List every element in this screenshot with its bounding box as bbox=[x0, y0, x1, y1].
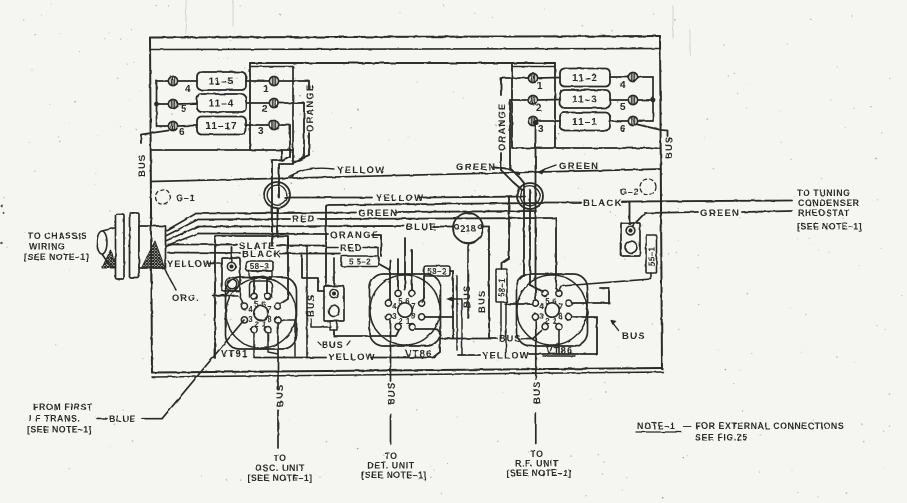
svg-text:3: 3 bbox=[258, 126, 264, 137]
FROM FIRST IF TRANS note bbox=[27, 402, 93, 435]
wire TS2-1 to box bbox=[538, 77, 560, 80]
svg-text:4: 4 bbox=[248, 305, 253, 314]
yellow bus wire (V1 to V2) bbox=[254, 357, 326, 359]
VT91 unit enclosure bbox=[215, 236, 288, 358]
svg-text:3: 3 bbox=[539, 312, 544, 321]
wire TS1-2 drop bbox=[279, 103, 304, 163]
bus wire right of V1 bbox=[306, 246, 308, 357]
svg-text:7: 7 bbox=[411, 302, 415, 311]
svg-text:[SEE NOTE–1]: [SEE NOTE–1] bbox=[24, 252, 89, 262]
junction dot at TS2-3 bbox=[534, 120, 538, 124]
wire pin1 V3 down bbox=[558, 331, 560, 355]
terminal TS1-3 bbox=[269, 120, 278, 129]
55-2 label box bbox=[341, 256, 379, 267]
red wire (horizontal run) bbox=[198, 218, 290, 221]
bus wire under V2-V3 bbox=[440, 338, 497, 340]
svg-text:2: 2 bbox=[398, 317, 403, 326]
svg-text:3: 3 bbox=[392, 312, 397, 321]
wire box to TS2-4 bbox=[610, 76, 628, 78]
tube socket V3 bbox=[517, 274, 588, 346]
bus wire at TS2-6 with hook bbox=[638, 125, 668, 137]
trimmer T1 (body) bbox=[222, 258, 240, 291]
55-2 post screw terminal bbox=[330, 289, 338, 297]
svg-text:BUS: BUS bbox=[462, 285, 473, 308]
yellow wire continues to 58-1 bbox=[419, 197, 525, 270]
grommet G-1 dashed ring bbox=[156, 190, 171, 205]
BUS label (left of 55-2 post) bbox=[306, 294, 331, 327]
wire between units down bbox=[457, 276, 462, 355]
grommet G-2 (double ring) bbox=[517, 183, 543, 209]
terminal TS1-3 number bbox=[258, 126, 264, 137]
rheostat terminal (screw) bbox=[626, 226, 635, 235]
YELLOW label (lower middle) bbox=[482, 351, 530, 362]
svg-text:YELLOW: YELLOW bbox=[482, 351, 530, 362]
svg-text:58–1: 58–1 bbox=[498, 277, 507, 297]
wire TS2-2 drop bbox=[510, 100, 528, 183]
svg-text:5: 5 bbox=[620, 102, 626, 113]
grommet G-1 (double ring) bbox=[264, 182, 290, 208]
svg-text:6: 6 bbox=[261, 300, 266, 309]
svg-text:5 5–2: 5 5–2 bbox=[349, 258, 371, 267]
BUS label (under 55-2 post) bbox=[318, 340, 350, 350]
wire 55-1 down to socket V3 bbox=[559, 273, 651, 291]
terminal strip TS2 bus bracket (right column) bbox=[638, 77, 655, 121]
svg-text:[SEE NOTE–1]: [SEE NOTE–1] bbox=[27, 425, 92, 435]
BUS label (rf stub) bbox=[532, 381, 543, 404]
svg-text:5: 5 bbox=[545, 297, 550, 306]
wire pin7 V3 right bbox=[572, 288, 609, 303]
svg-text:58–2: 58–2 bbox=[427, 267, 447, 276]
terminal TS2-2 bbox=[528, 95, 537, 104]
svg-text:11–4: 11–4 bbox=[209, 99, 235, 110]
wire 55-2 post to bus bbox=[334, 330, 399, 336]
connector flange plate 2 bbox=[130, 213, 140, 278]
orange wire vertical (TS1) bbox=[294, 81, 309, 162]
wire box to TS2-6 bbox=[610, 120, 628, 122]
terminal TS1-5 bbox=[168, 99, 177, 108]
wire pair down through grommet G-1 bbox=[277, 208, 279, 237]
bus wire to osc unit bbox=[277, 324, 279, 448]
BLUE wire label (run) bbox=[406, 222, 437, 233]
svg-text:5: 5 bbox=[398, 297, 403, 306]
GREEN wire label (run) bbox=[358, 208, 398, 219]
svg-text:GREEN: GREEN bbox=[559, 161, 599, 172]
VT91 designator bbox=[221, 349, 248, 360]
wire TS2-3 drop through grommet G-2 bbox=[535, 123, 537, 300]
svg-text:YELLOW: YELLOW bbox=[376, 193, 424, 204]
svg-text:[SEE NOTE–1]: [SEE NOTE–1] bbox=[362, 470, 427, 480]
red wire continues bbox=[318, 218, 558, 291]
TO OSC. UNIT note bbox=[248, 453, 313, 483]
NOTE-1 text bbox=[636, 421, 844, 443]
terminal TS2-6 number bbox=[620, 124, 626, 135]
svg-text:YELLOW: YELLOW bbox=[337, 165, 385, 176]
wire 55-2 box to post bbox=[333, 258, 335, 286]
label box 11-5 bbox=[197, 72, 246, 90]
BUS label (right of V3) bbox=[610, 320, 646, 343]
bus wire to r.f. unit bbox=[535, 320, 537, 444]
svg-text:CONDENSER: CONDENSER bbox=[798, 198, 860, 208]
wire TS1-5 to box bbox=[178, 103, 197, 106]
terminal TS2-5 number bbox=[620, 102, 626, 113]
terminal TS1-6 bbox=[168, 121, 177, 130]
resistor 58-1 label box bbox=[496, 269, 507, 302]
GREEN label (to rheostat) bbox=[700, 208, 740, 219]
svg-text:4: 4 bbox=[539, 302, 544, 311]
svg-text:R.F. UNIT: R.F. UNIT bbox=[515, 459, 559, 469]
GREEN label (top right of G-2) with leader bbox=[538, 161, 599, 175]
black lead continues bbox=[280, 254, 340, 292]
VT86 designator (V2) bbox=[405, 349, 432, 360]
terminal TS1-2 bbox=[269, 98, 278, 107]
blue wire from resistor 218 down bbox=[482, 227, 490, 339]
terminal TS2-1 bbox=[528, 73, 537, 82]
svg-text:1: 1 bbox=[553, 317, 558, 326]
svg-text:GREEN: GREEN bbox=[358, 208, 398, 219]
VT86 designator (V3) bbox=[543, 346, 575, 357]
chassis outline (top double edge) bbox=[150, 36, 660, 50]
svg-text:BUS: BUS bbox=[477, 290, 488, 313]
wire pin1 V1 down to bus bbox=[268, 320, 295, 356]
terminal TS1-4 bbox=[168, 76, 177, 85]
terminal strip TS1 bus bracket (left column) bbox=[155, 81, 169, 126]
wire TS1-3 drop bbox=[279, 125, 290, 161]
55-2 post stem bbox=[330, 321, 337, 330]
connector body hatched wedge bbox=[142, 241, 166, 268]
resistor 58-3 body bbox=[249, 271, 272, 278]
label box 11-1 bbox=[560, 113, 610, 131]
svg-text:5: 5 bbox=[181, 104, 187, 115]
svg-text:8: 8 bbox=[411, 312, 416, 321]
svg-text:6: 6 bbox=[405, 297, 410, 306]
svg-text:YELLOW: YELLOW bbox=[167, 259, 213, 269]
trimmer T1 adjuster bbox=[225, 277, 239, 291]
svg-text:1: 1 bbox=[406, 317, 411, 326]
yellow wire continues to V3 bbox=[529, 353, 597, 355]
terminal TS2-3 number bbox=[538, 124, 544, 135]
tube socket V2 bbox=[370, 274, 441, 346]
yellow bus wire continues bbox=[371, 347, 440, 358]
terminal TS1-1 number bbox=[263, 84, 269, 95]
G-2 label bbox=[620, 187, 639, 197]
bus wire to det unit bbox=[390, 321, 392, 444]
wire box to TS1-1 bbox=[246, 80, 269, 82]
TO TUNING CONDENSER RHEOSTAT note bbox=[797, 188, 862, 232]
svg-text:TO: TO bbox=[384, 451, 397, 461]
svg-text:WIRING: WIRING bbox=[29, 242, 65, 252]
rheostat terminal strip 55-1 (box) bbox=[621, 223, 640, 256]
BUS label (left of V3) bbox=[499, 331, 542, 344]
TO CHASSIS WIRING note bbox=[24, 231, 89, 262]
svg-text:11–3: 11–3 bbox=[572, 95, 598, 106]
black wire (horizontal run) bbox=[326, 203, 543, 205]
SLATE wire label bbox=[239, 241, 276, 252]
svg-text:TO: TO bbox=[530, 449, 543, 459]
rheostat terminal hole bbox=[625, 241, 637, 253]
svg-text:OSC. UNIT: OSC. UNIT bbox=[255, 463, 305, 473]
chassis fold/divider line bbox=[151, 169, 661, 182]
TS2 enclosure box bbox=[512, 63, 660, 148]
RED label (55-2 lead) bbox=[326, 243, 378, 256]
label box 11-2 bbox=[560, 69, 610, 87]
svg-text:4: 4 bbox=[620, 80, 626, 91]
svg-text:ORG.: ORG. bbox=[172, 293, 200, 303]
wire pin8 V3 right down bbox=[572, 317, 597, 354]
terminal TS2-1 number bbox=[537, 81, 543, 92]
trimmer T1 screw terminal bbox=[227, 262, 235, 270]
wire pin4 V3 from left bbox=[505, 303, 532, 305]
label box 11-3 bbox=[560, 90, 610, 108]
GREEN label (top left of G-2) with leader bbox=[456, 162, 519, 174]
svg-text:BUS: BUS bbox=[137, 154, 148, 177]
svg-text:8: 8 bbox=[558, 312, 563, 321]
wire pin8 V2 right bbox=[425, 316, 453, 318]
svg-text:ORANGE: ORANGE bbox=[497, 103, 508, 151]
G-1 label bbox=[176, 193, 195, 203]
ORANGE label (right strip) bbox=[497, 103, 508, 151]
wire TS2-1 to orange drop (left) bbox=[501, 78, 528, 95]
bus wire at TS1-6 with hook bbox=[141, 131, 169, 144]
chassis outline (right edge) bbox=[660, 36, 662, 369]
svg-text:— FOR EXTERNAL CONNECTIONS: — FOR EXTERNAL CONNECTIONS bbox=[683, 421, 844, 431]
svg-text:BUS: BUS bbox=[387, 382, 398, 405]
ORANGE wire label (run) bbox=[330, 230, 380, 241]
svg-text:TO TUNING: TO TUNING bbox=[797, 188, 851, 198]
RED wire label (run) bbox=[292, 214, 316, 225]
svg-text:1: 1 bbox=[262, 320, 267, 329]
TO R.F. UNIT note bbox=[507, 449, 572, 478]
green wire from rheostat bbox=[633, 212, 698, 226]
svg-text:1: 1 bbox=[263, 84, 269, 95]
svg-text:55–1: 55–1 bbox=[648, 246, 657, 266]
wire box to TS1-2 bbox=[246, 102, 269, 104]
slate wire bbox=[168, 244, 237, 246]
TS1 enclosure box bbox=[250, 63, 555, 246]
ORG. label (trimmer lead) bbox=[164, 268, 230, 303]
svg-text:218: 218 bbox=[460, 224, 476, 234]
orange wire vertical (TS2) bbox=[501, 153, 522, 190]
svg-text:BUS: BUS bbox=[322, 340, 343, 350]
BLACK wire label (to rheostat) bbox=[583, 198, 623, 209]
svg-text:BLACK: BLACK bbox=[242, 249, 282, 260]
svg-text:7: 7 bbox=[558, 302, 562, 311]
blue wire to resistor 218 bbox=[434, 226, 453, 228]
BUS label (osc stub) bbox=[275, 384, 286, 407]
svg-text:2: 2 bbox=[545, 317, 550, 326]
resistor 58-3 label box bbox=[246, 261, 273, 271]
wire pin1 V2 right-down bbox=[415, 329, 440, 347]
svg-text:58–3: 58–3 bbox=[250, 262, 270, 271]
55-1 label box bbox=[646, 235, 657, 273]
cable hatched sleeve (left) bbox=[102, 250, 117, 268]
svg-text:GREEN: GREEN bbox=[700, 208, 740, 219]
terminal TS1-4 number bbox=[185, 84, 191, 95]
YELLOW label (trimmer lead) bbox=[167, 259, 222, 269]
svg-text:RED: RED bbox=[292, 214, 316, 225]
svg-text:BUS: BUS bbox=[622, 331, 646, 342]
terminal TS1-2 number bbox=[262, 104, 268, 115]
wire 58-2 right down bbox=[450, 271, 453, 339]
grommet G-2 dashed ring bbox=[640, 179, 656, 195]
socket V1 key shield bbox=[250, 281, 273, 297]
orange wire elbow down to 55-2 bbox=[372, 235, 381, 256]
BUS label (right strip) bbox=[664, 136, 675, 159]
black lead wire bbox=[168, 252, 240, 255]
svg-text:[SEE NOTE–1]: [SEE NOTE–1] bbox=[248, 473, 313, 483]
svg-text:2: 2 bbox=[536, 103, 542, 114]
terminal TS1-5 number bbox=[181, 104, 187, 115]
terminal TS2-2 number bbox=[536, 103, 542, 114]
svg-text:G–2: G–2 bbox=[620, 187, 639, 197]
BLUE wire label (from IF trans) bbox=[97, 414, 162, 424]
svg-text:VT91: VT91 bbox=[221, 349, 248, 360]
resistor 218 (circled) bbox=[453, 213, 483, 243]
svg-text:BUS: BUS bbox=[532, 381, 543, 404]
svg-text:BLACK: BLACK bbox=[583, 198, 623, 209]
wire trimmer to black lead bbox=[231, 247, 233, 262]
svg-text:3: 3 bbox=[538, 124, 544, 135]
long wire joining TS1 and TS2 tops bbox=[250, 62, 555, 64]
svg-text:11–17: 11–17 bbox=[205, 121, 237, 132]
green wire (horizontal run) bbox=[196, 213, 356, 214]
blue wire (horizontal run) bbox=[198, 225, 404, 228]
vertical wires above V2 bbox=[390, 238, 412, 290]
svg-text:8: 8 bbox=[267, 315, 272, 324]
svg-text:11–1: 11–1 bbox=[572, 117, 598, 128]
wire 58-2 to pin7 V2 bbox=[422, 276, 424, 302]
svg-text:BUS: BUS bbox=[275, 384, 286, 407]
black wire drop at left end bbox=[325, 205, 327, 286]
svg-text:11–2: 11–2 bbox=[572, 73, 598, 84]
YELLOW label (lower left) bbox=[328, 352, 376, 363]
svg-text:GREEN: GREEN bbox=[456, 162, 496, 173]
svg-text:SEE FIG.25: SEE FIG.25 bbox=[695, 433, 748, 443]
chassis outline (bottom double edge) bbox=[152, 368, 663, 377]
terminal TS2-4 number bbox=[620, 80, 626, 91]
svg-text:G–1: G–1 bbox=[176, 193, 195, 203]
wire TS1-6 to box bbox=[178, 125, 197, 128]
svg-text:7: 7 bbox=[267, 305, 271, 314]
chassis edge over connector bbox=[150, 213, 152, 281]
yellow wire (horizontal run) bbox=[285, 197, 372, 199]
terminal TS2-4 bbox=[628, 72, 637, 81]
wire 55-2 to pin4 V2 bbox=[379, 264, 390, 300]
svg-text:NOTE–1: NOTE–1 bbox=[637, 421, 675, 431]
orange wire (horizontal run) bbox=[198, 233, 328, 236]
TS1 base line bbox=[152, 149, 293, 151]
svg-text:[SEE NOTE–1]: [SEE NOTE–1] bbox=[507, 468, 572, 478]
wire pin2 V1 down bbox=[253, 333, 255, 357]
YELLOW wire label (run) bbox=[376, 193, 424, 204]
chassis outline (left edge) bbox=[150, 38, 152, 373]
BUS label (det stub) bbox=[387, 382, 398, 405]
wire TS2-2 continuation through grommet bbox=[523, 183, 525, 276]
terminal TS2-5 bbox=[628, 95, 637, 104]
label box 11-17 bbox=[197, 117, 246, 135]
svg-text:6: 6 bbox=[620, 124, 626, 135]
wire pin4 V1 to trimmer bbox=[240, 291, 243, 303]
wire box to TS2-5 bbox=[610, 99, 628, 101]
svg-text:I F TRANS.: I F TRANS. bbox=[29, 414, 80, 424]
55-2 post hole bbox=[329, 306, 340, 317]
wire pin7 V1 up-right bbox=[280, 237, 288, 304]
svg-text:6: 6 bbox=[179, 127, 185, 138]
yellow bus wire (V2 to V3) bbox=[458, 354, 480, 356]
wire box to TS1-3 bbox=[246, 124, 269, 126]
svg-text:2: 2 bbox=[254, 320, 259, 329]
YELLOW label (top, above divider) with leader bbox=[289, 165, 385, 178]
connector body bbox=[139, 226, 166, 268]
wire TS2-3 to box bbox=[538, 120, 560, 122]
svg-text:[SEE NOTE–1]: [SEE NOTE–1] bbox=[797, 222, 862, 232]
terminal strip 55-2 post (body) bbox=[324, 286, 344, 321]
black wire to rheostat terminal bbox=[622, 202, 630, 224]
terminal TS2-6 bbox=[628, 116, 637, 125]
svg-text:DET. UNIT: DET. UNIT bbox=[367, 461, 414, 471]
blue wire diagonal to pin3 V1 bbox=[162, 320, 244, 419]
svg-text:RHEOSTAT: RHEOSTAT bbox=[798, 208, 850, 218]
resistor 58-2 label box bbox=[424, 266, 450, 276]
svg-text:11–5: 11–5 bbox=[209, 77, 235, 88]
svg-text:ORANGE: ORANGE bbox=[305, 84, 316, 132]
connector flange plate 1 bbox=[116, 214, 125, 279]
svg-text:BLUE: BLUE bbox=[109, 414, 136, 424]
BUS label (left strip) bbox=[137, 154, 148, 177]
svg-text:TO: TO bbox=[273, 453, 286, 463]
wire 58-3 to socket pin 6 bbox=[266, 278, 268, 294]
ORANGE label (left strip) bbox=[305, 84, 316, 132]
green wire exits to tuning condenser bbox=[742, 211, 792, 212]
TO DET. UNIT note bbox=[362, 451, 427, 480]
svg-text:3: 3 bbox=[248, 315, 253, 324]
svg-text:1: 1 bbox=[537, 81, 543, 92]
BUS label pair (between V2 and V3) bbox=[446, 285, 488, 313]
svg-text:2: 2 bbox=[262, 104, 268, 115]
wire 58-3 to socket pin 5 bbox=[253, 278, 255, 294]
wire 58-1 down bbox=[501, 302, 506, 352]
svg-text:FROM FIRST: FROM FIRST bbox=[33, 402, 93, 412]
terminal TS1-6 number bbox=[179, 127, 185, 138]
tube socket V1 bbox=[226, 277, 297, 349]
terminal TS1-1 bbox=[269, 76, 278, 85]
svg-text:4: 4 bbox=[392, 302, 397, 311]
svg-text:6: 6 bbox=[552, 297, 557, 306]
label box 11-4 bbox=[197, 94, 246, 112]
wire TS1-1 to orange drop bbox=[279, 80, 309, 82]
BLACK lead label bbox=[242, 249, 282, 260]
svg-text:5: 5 bbox=[254, 300, 259, 309]
slate wire continues bbox=[277, 245, 326, 247]
terminal TS2-3 bbox=[528, 116, 537, 125]
wire TS2-2 to box bbox=[538, 99, 560, 102]
wire orange continuation below grommet bbox=[530, 190, 543, 292]
svg-text:BLUE: BLUE bbox=[406, 222, 437, 233]
svg-text:4: 4 bbox=[185, 84, 191, 95]
svg-text:RED: RED bbox=[340, 243, 363, 253]
wire TS1-4 to box bbox=[178, 80, 197, 82]
wire resistor 218 down bbox=[467, 244, 469, 319]
cable to chassis wiring (tube) bbox=[97, 228, 116, 269]
green wire continues to G-2 wires bbox=[395, 211, 536, 212]
wire fan from connector bbox=[166, 214, 199, 247]
svg-text:BUS: BUS bbox=[664, 136, 675, 159]
svg-text:TO CHASSIS: TO CHASSIS bbox=[28, 231, 88, 241]
svg-text:YELLOW: YELLOW bbox=[328, 352, 376, 363]
black wire exits to tuning condenser bbox=[544, 201, 792, 203]
